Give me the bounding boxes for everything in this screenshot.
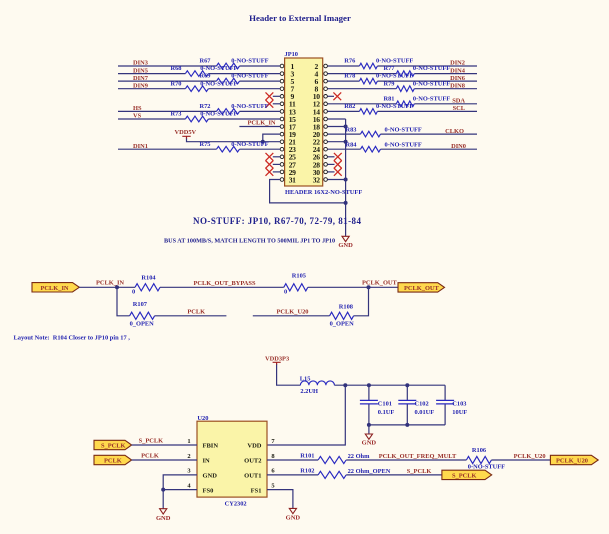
wire DIN5 to JP10 bbox=[118, 73, 280, 75]
ground symbol under JP10 bbox=[342, 236, 349, 241]
svg-text:PCLK_OUT_FREQ_MULT: PCLK_OUT_FREQ_MULT bbox=[379, 453, 457, 460]
svg-text:0-NO-STUFF: 0-NO-STUFF bbox=[468, 464, 505, 471]
wire R106 to port bbox=[491, 459, 550, 461]
svg-text:S_PCLK: S_PCLK bbox=[452, 473, 477, 480]
svg-text:R68: R68 bbox=[171, 65, 182, 72]
power symbol VDD5V bbox=[182, 136, 190, 139]
JP10 pin 28 circle bbox=[324, 163, 328, 167]
JP10 pin 10 circle bbox=[324, 95, 328, 99]
svg-text:SCL: SCL bbox=[453, 105, 465, 112]
junction FS0 ground bbox=[161, 488, 165, 492]
JP10 pin 19 circle bbox=[280, 132, 284, 136]
svg-text:R104: R104 bbox=[141, 275, 156, 282]
wire pin 24 through R84 to DIN0 bbox=[328, 148, 478, 150]
JP10 pin 5 circle bbox=[280, 79, 284, 83]
JP10 pin 24 circle bbox=[324, 147, 328, 151]
resistor R101 bbox=[318, 456, 346, 463]
wire pin 22 to bus bbox=[328, 141, 346, 143]
svg-text:R69: R69 bbox=[200, 73, 211, 80]
svg-text:PCLK_IN: PCLK_IN bbox=[248, 120, 276, 127]
JP10 pin 2 circle bbox=[324, 64, 328, 68]
junction pin19/pin21 bbox=[261, 140, 265, 144]
svg-text:CLKO: CLKO bbox=[445, 128, 464, 135]
svg-text:32: 32 bbox=[313, 175, 320, 184]
svg-text:2.2UH: 2.2UH bbox=[300, 388, 318, 395]
svg-text:R75: R75 bbox=[200, 141, 211, 148]
junction PCLK_OUT node bbox=[367, 285, 371, 289]
JP10 pin 6 circle bbox=[324, 79, 328, 83]
no-connect X pin 28 bbox=[328, 163, 335, 165]
wire S_PCLK to pin 1 bbox=[132, 444, 197, 446]
ground symbol under FS0 bbox=[160, 509, 167, 514]
svg-text:PCLK_IN: PCLK_IN bbox=[96, 280, 124, 287]
svg-text:OUT1: OUT1 bbox=[244, 473, 261, 480]
wire DIN7 to JP10 bbox=[118, 80, 280, 82]
junction pin 18 bbox=[344, 125, 348, 129]
svg-text:PCLK_U20: PCLK_U20 bbox=[556, 458, 588, 465]
port PCLK_U20 bbox=[550, 455, 598, 464]
svg-text:NO-STUFF: JP10, R67-70, 72-79,: NO-STUFF: JP10, R67-70, 72-79, 81-84 bbox=[193, 216, 361, 226]
svg-text:DIN7: DIN7 bbox=[133, 75, 149, 82]
svg-text:R101: R101 bbox=[300, 453, 314, 460]
svg-text:DIN4: DIN4 bbox=[450, 67, 466, 74]
svg-text:R81: R81 bbox=[384, 95, 395, 102]
wire VDD3P3 to L15 bbox=[277, 365, 301, 386]
resistor R68 bbox=[185, 71, 208, 77]
wire VS to JP10 bbox=[118, 118, 280, 120]
wire PCLK_IN to R107 bbox=[117, 287, 226, 316]
junction C102 bottom bbox=[405, 423, 409, 427]
ground symbol under FS1 bbox=[289, 508, 296, 513]
svg-text:0-NO-STUFF: 0-NO-STUFF bbox=[231, 103, 268, 110]
wire HS to JP10 bbox=[118, 110, 280, 112]
svg-text:DIN2: DIN2 bbox=[450, 60, 465, 67]
connector JP10 body bbox=[285, 58, 323, 186]
JP10 pin 26 circle bbox=[324, 155, 328, 159]
junction PCLK_IN node bbox=[115, 285, 119, 289]
svg-text:DIN0: DIN0 bbox=[451, 143, 466, 150]
JP10 pin 11 circle bbox=[280, 102, 284, 106]
svg-text:R72: R72 bbox=[200, 103, 211, 110]
svg-text:FS0: FS0 bbox=[203, 487, 214, 494]
svg-text:DIN6: DIN6 bbox=[450, 75, 466, 82]
svg-text:PCLK: PCLK bbox=[141, 453, 159, 460]
JP10 pin 17 circle bbox=[280, 125, 284, 129]
svg-text:0.1UF: 0.1UF bbox=[378, 409, 395, 416]
svg-text:PCLK_IN: PCLK_IN bbox=[41, 285, 69, 292]
svg-text:C101: C101 bbox=[378, 401, 392, 408]
wire power rail bbox=[334, 384, 445, 386]
no-connect X pin 25 bbox=[273, 156, 280, 158]
wire pin 31 to ground bus bbox=[270, 180, 346, 203]
svg-text:GND: GND bbox=[203, 473, 218, 480]
svg-text:S_PCLK: S_PCLK bbox=[407, 468, 432, 475]
wire PCLK_U20 to R108 bbox=[253, 287, 369, 316]
JP10 pin 27 circle bbox=[280, 163, 284, 167]
svg-text:VDD3P3: VDD3P3 bbox=[265, 356, 289, 363]
svg-text:0-NO-STUFF: 0-NO-STUFF bbox=[385, 126, 422, 133]
junction C101 bottom bbox=[367, 423, 371, 427]
svg-text:S_PCLK: S_PCLK bbox=[139, 438, 164, 445]
svg-text:7: 7 bbox=[271, 438, 275, 445]
svg-text:0-NO-STUFF: 0-NO-STUFF bbox=[200, 111, 237, 118]
svg-text:PCLK_U20: PCLK_U20 bbox=[277, 309, 309, 316]
JP10 pin 31 circle bbox=[280, 178, 284, 182]
port S_PCLK left bbox=[94, 440, 132, 449]
svg-text:Layout Note: R104 Closer to J: Layout Note: R104 Closer to JP10 pin 17 … bbox=[14, 335, 131, 342]
svg-text:22 Ohm_OPEN: 22 Ohm_OPEN bbox=[348, 468, 391, 475]
JP10 pin 15 circle bbox=[280, 117, 284, 121]
resistor R69 bbox=[217, 78, 240, 84]
svg-text:R76: R76 bbox=[344, 58, 356, 65]
svg-text:DIN3: DIN3 bbox=[133, 60, 148, 67]
svg-text:R70: R70 bbox=[171, 80, 182, 87]
no-connect X pin 10 bbox=[328, 95, 335, 97]
port PCLK_IN bbox=[32, 283, 79, 292]
wire DIN3 to JP10 bbox=[118, 65, 280, 67]
JP10 pin 25 circle bbox=[280, 155, 284, 159]
JP10 pin 4 circle bbox=[324, 72, 328, 76]
svg-text:0: 0 bbox=[284, 288, 287, 295]
svg-text:2: 2 bbox=[187, 453, 190, 460]
no-connect X pin 26 bbox=[328, 156, 335, 158]
JP10 pin 29 circle bbox=[280, 170, 284, 174]
svg-text:8: 8 bbox=[271, 453, 275, 460]
svg-text:DIN9: DIN9 bbox=[133, 82, 148, 89]
svg-text:FS1: FS1 bbox=[251, 487, 262, 494]
wire rail to ground bbox=[368, 425, 370, 434]
resistor R76 bbox=[359, 63, 377, 69]
svg-text:GND: GND bbox=[362, 439, 377, 446]
svg-text:BUS AT 100MB/S, MATCH LENGTH T: BUS AT 100MB/S, MATCH LENGTH TO 500MIL J… bbox=[164, 238, 335, 245]
wire pin 19 stub bbox=[263, 134, 280, 142]
svg-text:6: 6 bbox=[271, 468, 275, 475]
wire pin 32 to bus bbox=[328, 179, 346, 181]
JP10 pin 9 circle bbox=[280, 95, 284, 99]
junction C102 top bbox=[405, 383, 409, 387]
JP10 pin 30 circle bbox=[324, 170, 328, 174]
svg-text:R67: R67 bbox=[200, 58, 212, 65]
port PCLK left bbox=[94, 455, 132, 464]
svg-text:5: 5 bbox=[271, 482, 275, 489]
svg-text:R73: R73 bbox=[171, 111, 182, 118]
svg-text:0-NO-STUFF: 0-NO-STUFF bbox=[376, 58, 413, 65]
svg-text:R105: R105 bbox=[292, 273, 306, 280]
svg-text:IN: IN bbox=[203, 458, 211, 465]
svg-text:R102: R102 bbox=[300, 468, 314, 475]
capacitor C102 bbox=[406, 385, 408, 425]
junction pin 32 bbox=[344, 178, 348, 182]
svg-text:DIN5: DIN5 bbox=[133, 67, 148, 74]
wire DIN9 to JP10 bbox=[118, 88, 280, 90]
junction pin 22 bbox=[344, 140, 348, 144]
wire pin to SCL bbox=[328, 110, 478, 112]
wire PCLK_IN to pin 17 bbox=[239, 126, 280, 128]
wire pin to DIN4 bbox=[328, 73, 478, 75]
svg-text:0.01UF: 0.01UF bbox=[415, 409, 435, 416]
wire pin to DIN2 bbox=[328, 65, 478, 67]
svg-text:0-NO-STUFF: 0-NO-STUFF bbox=[200, 65, 237, 72]
power symbol VDD3P3 bbox=[273, 362, 281, 365]
wire pin 18 to bus bbox=[328, 126, 346, 128]
svg-text:R82: R82 bbox=[344, 103, 355, 110]
wire rail to VDD pin 7 bbox=[267, 385, 345, 445]
svg-text:4: 4 bbox=[187, 482, 191, 489]
IC U20 body bbox=[197, 421, 267, 497]
wire OUT1 to R102 bbox=[267, 474, 442, 476]
resistor R106 bbox=[466, 456, 491, 463]
svg-text:0-NO-STUFF: 0-NO-STUFF bbox=[413, 65, 450, 72]
resistor R108 bbox=[330, 312, 354, 319]
wire pin 16 to bus bbox=[328, 118, 346, 120]
svg-text:31: 31 bbox=[289, 175, 296, 184]
svg-text:R78: R78 bbox=[344, 73, 355, 80]
wire DIN1 to JP10 bbox=[118, 148, 280, 150]
inductor L15 bbox=[300, 381, 334, 385]
no-connect X pin 29 bbox=[273, 171, 280, 173]
wire pin 5 to ground bbox=[267, 490, 293, 509]
wire OUT2 to R101 bbox=[267, 459, 466, 461]
svg-text:U20: U20 bbox=[197, 415, 208, 422]
svg-text:OUT2: OUT2 bbox=[244, 458, 261, 465]
no-connect X pin 27 bbox=[273, 163, 280, 165]
resistor R77 bbox=[396, 71, 414, 77]
svg-text:PCLK_OUT_BYPASS: PCLK_OUT_BYPASS bbox=[194, 280, 256, 287]
svg-text:R84: R84 bbox=[346, 141, 358, 148]
resistor R79 bbox=[396, 86, 414, 92]
resistor R81 bbox=[396, 101, 414, 107]
JP10 pin 23 circle bbox=[280, 147, 284, 151]
svg-text:PCLK_OUT: PCLK_OUT bbox=[404, 285, 440, 292]
svg-text:0_OPEN: 0_OPEN bbox=[330, 320, 355, 327]
svg-text:PCLK: PCLK bbox=[104, 458, 122, 465]
ground symbol under caps bbox=[365, 434, 372, 439]
svg-text:0-NO-STUFF: 0-NO-STUFF bbox=[376, 73, 413, 80]
resistor R82 bbox=[359, 109, 377, 115]
svg-text:VS: VS bbox=[133, 113, 142, 120]
wire cap bottom rail bbox=[369, 424, 445, 426]
wire VDD5V to pin 21 bbox=[187, 139, 281, 142]
svg-text:0-NO-STUFF: 0-NO-STUFF bbox=[231, 141, 268, 148]
svg-text:Header to External Imager: Header to External Imager bbox=[249, 13, 351, 23]
svg-text:R83: R83 bbox=[346, 126, 357, 133]
junction pin 31 wire bbox=[344, 201, 348, 205]
svg-text:0: 0 bbox=[132, 288, 135, 295]
svg-text:PCLK: PCLK bbox=[187, 308, 205, 315]
wire pin to DIN8 bbox=[328, 88, 478, 90]
svg-text:HEADER 16X2-NO-STUFF: HEADER 16X2-NO-STUFF bbox=[285, 189, 362, 196]
JP10 pin 12 circle bbox=[324, 102, 328, 106]
no-connect X pin 11 bbox=[273, 103, 280, 105]
resistor R83 bbox=[361, 131, 381, 137]
resistor R67 bbox=[217, 63, 240, 69]
svg-text:R77: R77 bbox=[384, 65, 396, 72]
svg-text:R108: R108 bbox=[339, 303, 353, 310]
wire pin to DIN6 bbox=[328, 80, 478, 82]
svg-text:22 Ohm: 22 Ohm bbox=[348, 453, 371, 460]
svg-text:SDA: SDA bbox=[452, 98, 465, 105]
svg-text:3: 3 bbox=[187, 468, 191, 475]
svg-text:GND: GND bbox=[156, 515, 171, 522]
resistor R72 bbox=[217, 109, 240, 115]
JP10 pin 3 circle bbox=[280, 72, 284, 76]
resistor R102 bbox=[318, 471, 346, 478]
svg-text:0_OPEN: 0_OPEN bbox=[130, 320, 155, 327]
svg-text:C102: C102 bbox=[415, 401, 429, 408]
wire pin 20 through R83 to CLKO bbox=[328, 133, 478, 135]
wire pin 4 to ground bbox=[163, 490, 197, 509]
junction rail to VDD pin bbox=[343, 383, 347, 387]
port S_PCLK right bbox=[442, 470, 492, 479]
resistor R107 bbox=[130, 312, 155, 319]
svg-text:HS: HS bbox=[133, 105, 142, 112]
svg-text:R79: R79 bbox=[384, 80, 395, 87]
svg-text:0-NO-STUFF: 0-NO-STUFF bbox=[231, 73, 268, 80]
svg-text:GND: GND bbox=[286, 515, 301, 522]
JP10 pin 32 circle bbox=[324, 178, 328, 182]
resistor R78 bbox=[359, 78, 377, 84]
JP10 pin 8 circle bbox=[324, 87, 328, 91]
svg-text:0-NO-STUFF: 0-NO-STUFF bbox=[413, 95, 450, 102]
svg-text:PCLK_U20: PCLK_U20 bbox=[514, 453, 546, 460]
resistor R104 bbox=[135, 284, 160, 291]
svg-text:1: 1 bbox=[187, 438, 190, 445]
JP10 pin 1 circle bbox=[280, 64, 284, 68]
no-connect X pin 9 bbox=[273, 95, 280, 97]
svg-text:L15: L15 bbox=[300, 375, 311, 382]
no-connect X pin 30 bbox=[328, 171, 335, 173]
JP10 pin 18 circle bbox=[324, 125, 328, 129]
svg-text:0-NO-STUFF: 0-NO-STUFF bbox=[231, 58, 268, 65]
JP10 pin 7 circle bbox=[280, 87, 284, 91]
svg-text:VDD: VDD bbox=[247, 443, 261, 450]
svg-text:CY2302: CY2302 bbox=[225, 501, 247, 508]
capacitor C103 bbox=[444, 385, 446, 425]
svg-text:10UF: 10UF bbox=[452, 409, 467, 416]
ground bus wire bbox=[345, 119, 347, 236]
JP10 pin 22 circle bbox=[324, 140, 328, 144]
svg-text:GND: GND bbox=[338, 242, 353, 249]
resistor R75 bbox=[217, 146, 240, 152]
svg-text:0-NO-STUFF: 0-NO-STUFF bbox=[385, 141, 422, 148]
svg-text:C103: C103 bbox=[452, 401, 466, 408]
JP10 pin 14 circle bbox=[324, 110, 328, 114]
JP10 pin 20 circle bbox=[324, 132, 328, 136]
resistor R70 bbox=[185, 86, 208, 92]
svg-text:S_PCLK: S_PCLK bbox=[101, 443, 126, 450]
svg-text:FBIN: FBIN bbox=[203, 443, 219, 450]
port PCLK_OUT bbox=[398, 283, 445, 292]
wire PCLK to pin 2 bbox=[132, 459, 197, 461]
wire pin to SDA bbox=[328, 103, 478, 105]
junction C101 top bbox=[367, 383, 371, 387]
svg-text:DIN1: DIN1 bbox=[133, 143, 148, 150]
wire PCLK_IN net bbox=[79, 286, 398, 288]
svg-text:VDD5V: VDD5V bbox=[175, 129, 197, 136]
JP10 pin 21 circle bbox=[280, 140, 284, 144]
svg-text:DIN8: DIN8 bbox=[450, 82, 465, 89]
resistor R84 bbox=[361, 146, 381, 152]
svg-text:0-NO-STUFF: 0-NO-STUFF bbox=[200, 80, 237, 87]
JP10 pin 16 circle bbox=[324, 117, 328, 121]
JP10 pin 13 circle bbox=[280, 110, 284, 114]
svg-text:JP10: JP10 bbox=[285, 51, 299, 58]
svg-text:0-NO-STUFF: 0-NO-STUFF bbox=[376, 103, 413, 110]
svg-text:R107: R107 bbox=[133, 301, 148, 308]
svg-text:R106: R106 bbox=[472, 447, 487, 454]
resistor R105 bbox=[284, 284, 308, 291]
resistor R73 bbox=[185, 116, 208, 122]
svg-text:0-NO-STUFF: 0-NO-STUFF bbox=[413, 80, 450, 87]
svg-text:PCLK_OUT: PCLK_OUT bbox=[362, 280, 398, 287]
capacitor C101 bbox=[368, 385, 370, 425]
wire pin 3 to ground bbox=[163, 475, 197, 490]
